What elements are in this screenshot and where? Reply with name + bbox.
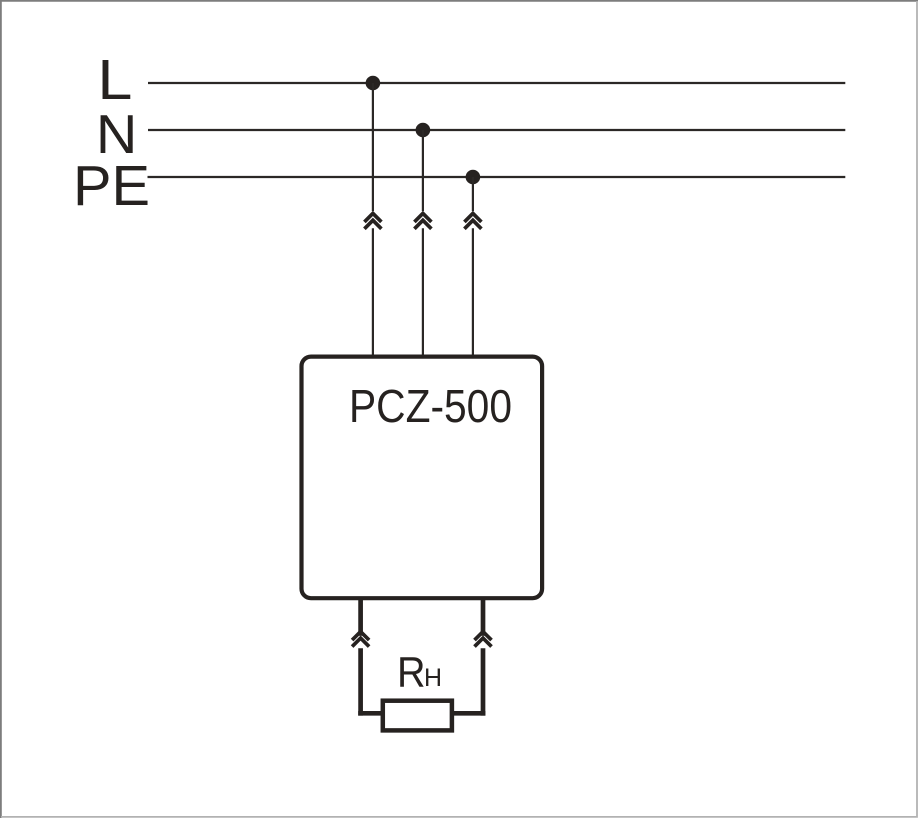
- relay box U1 PCZ-500: [302, 357, 543, 599]
- wire from PE arrows to box: [472, 228, 474, 357]
- arrow chevrons on left load wire: [352, 632, 369, 647]
- wire from right arrows down: [481, 648, 486, 715]
- wire PE line: [148, 176, 846, 178]
- wire from left arrows down: [358, 648, 363, 715]
- wire stub to resistor left: [358, 711, 383, 716]
- wire L line: [148, 82, 845, 84]
- arrow chevrons on L wire: [364, 213, 381, 228]
- resistor RH body: [383, 701, 452, 731]
- junction dot on PE: [466, 170, 481, 185]
- svg-text:PCZ-500: PCZ-500: [349, 380, 512, 432]
- svg-text:H: H: [424, 665, 442, 692]
- wire from box bottom left to arrows: [358, 597, 363, 636]
- arrow chevrons on PE wire: [464, 213, 481, 228]
- wire from N arrows to box: [422, 228, 424, 357]
- wire stub to resistor right: [452, 711, 485, 716]
- wire from box bottom right to arrows: [481, 597, 486, 636]
- arrow chevrons on N wire: [414, 213, 431, 228]
- svg-text:PE: PE: [73, 154, 150, 218]
- junction dot on N: [416, 123, 431, 138]
- wire from L to arrows: [372, 83, 374, 211]
- wire N line: [148, 129, 845, 131]
- junction dot on L: [366, 76, 381, 91]
- wire from L arrows to box: [372, 228, 374, 357]
- wire from N to arrows: [422, 130, 424, 211]
- arrow chevrons on right load wire: [475, 632, 492, 647]
- wire from PE to arrows: [472, 177, 474, 211]
- svg-text:R: R: [397, 649, 426, 697]
